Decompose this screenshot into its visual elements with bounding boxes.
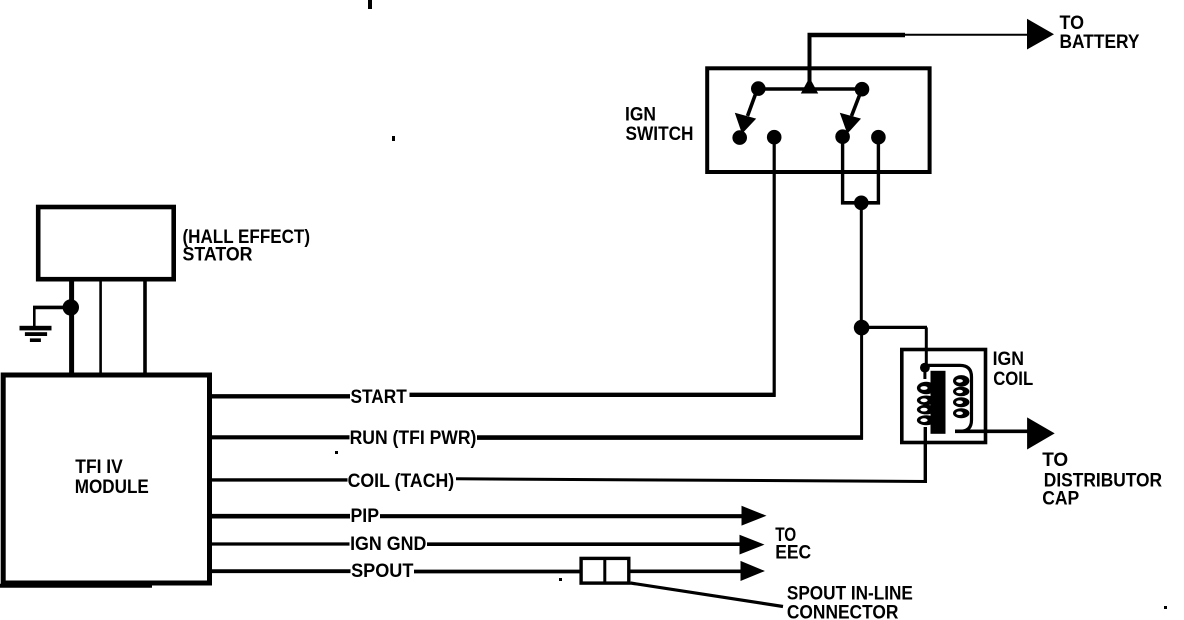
- svg-text:SPOUT: SPOUT: [351, 560, 413, 582]
- svg-text:TFI IV: TFI IV: [75, 456, 123, 478]
- svg-text:RUN (TFI PWR): RUN (TFI PWR): [350, 427, 477, 449]
- svg-text:BATTERY: BATTERY: [1060, 31, 1140, 53]
- svg-text:EEC: EEC: [775, 541, 811, 563]
- svg-text:START: START: [351, 386, 407, 408]
- svg-text:COIL: COIL: [993, 368, 1033, 390]
- svg-text:IGN: IGN: [993, 348, 1024, 370]
- svg-text:MODULE: MODULE: [75, 476, 149, 498]
- svg-text:CAP: CAP: [1042, 488, 1079, 510]
- svg-text:COIL (TACH): COIL (TACH): [348, 470, 455, 492]
- svg-text:CONNECTOR: CONNECTOR: [787, 602, 899, 620]
- svg-text:TO: TO: [1042, 449, 1068, 471]
- svg-text:STATOR: STATOR: [183, 243, 253, 265]
- svg-text:PIP: PIP: [351, 505, 380, 527]
- svg-text:IGN GND: IGN GND: [350, 533, 426, 555]
- svg-text:SWITCH: SWITCH: [626, 123, 694, 145]
